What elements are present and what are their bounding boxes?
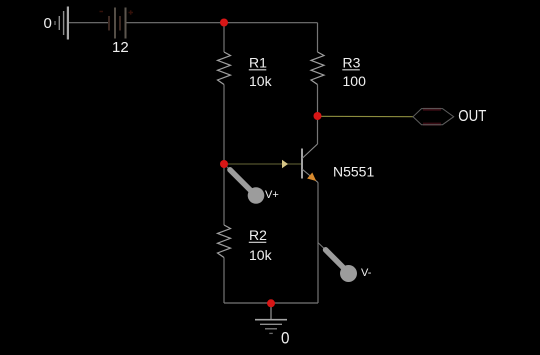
resistor R3 xyxy=(311,52,324,85)
svg-text:R3: R3 xyxy=(343,55,361,71)
emitter arrow xyxy=(307,173,316,182)
connector OUT xyxy=(413,109,454,125)
resistor R1 xyxy=(218,52,231,85)
svg-text:V-: V- xyxy=(361,267,372,279)
wire R1 bottom to base node xyxy=(223,85,225,165)
wire emitter to bottom rail xyxy=(317,183,319,304)
wire R2 bottom to bottom rail xyxy=(223,258,225,304)
probe V- xyxy=(318,243,357,282)
junction dot: ground node xyxy=(267,299,275,307)
wire R1 top lead xyxy=(223,23,225,52)
junction dot: top rail / R1 xyxy=(220,19,228,27)
ground GND2 (bottom, net 0) xyxy=(255,303,287,333)
wire base node to R2 top xyxy=(223,164,225,225)
label R2 xyxy=(249,227,267,243)
svg-text:R2: R2 xyxy=(249,227,267,243)
svg-text:12: 12 xyxy=(112,39,129,56)
svg-text:10k: 10k xyxy=(249,247,273,263)
wire output node to connector xyxy=(318,115,414,117)
svg-text:0: 0 xyxy=(281,329,290,348)
wire top rail (battery positive to R3 corner) xyxy=(127,22,318,24)
battery plus polarity mark xyxy=(129,10,134,14)
svg-text:N5551: N5551 xyxy=(333,163,374,179)
wire bottom rail xyxy=(224,302,318,304)
wire ground to battery negative xyxy=(69,22,108,24)
wire base node to Q1 base xyxy=(224,163,301,165)
label R1 xyxy=(249,55,267,71)
wire R3 top lead xyxy=(317,23,319,52)
resistor R2 xyxy=(218,225,231,258)
ground GND1 (left, battery negative, net 0) xyxy=(55,7,68,40)
junction dot: base node xyxy=(220,160,228,168)
svg-text:OUT: OUT xyxy=(458,108,486,125)
junction dot: output node xyxy=(314,112,322,120)
probe V+ xyxy=(224,164,264,204)
svg-text:R1: R1 xyxy=(249,55,267,71)
battery minus polarity mark xyxy=(100,11,104,13)
svg-text:0: 0 xyxy=(44,15,52,32)
svg-text:100: 100 xyxy=(343,73,367,89)
base current arrow xyxy=(282,160,288,169)
label R3 xyxy=(342,55,360,71)
svg-text:10k: 10k xyxy=(249,73,273,89)
wire R3 bottom to collector xyxy=(317,85,319,145)
transistor Q1 xyxy=(302,144,318,183)
battery V1 xyxy=(109,8,126,39)
svg-text:V+: V+ xyxy=(265,189,279,201)
